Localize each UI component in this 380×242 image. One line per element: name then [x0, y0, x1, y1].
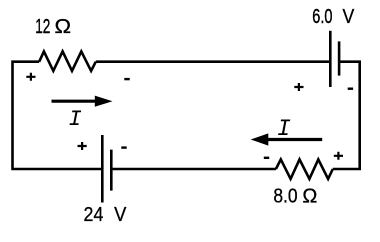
- svg-text:V: V: [114, 205, 126, 227]
- svg-text:Ω: Ω: [302, 185, 317, 207]
- current arrow I (bottom, pointing left): [267, 138, 322, 141]
- svg-text:V: V: [342, 6, 354, 28]
- resistor R1 12 ohm (zigzag, top): [39, 51, 96, 71]
- minus sign (right of B1): [348, 87, 353, 89]
- wire: top-left segment, left side, bottom-left segment (corner path): [13, 62, 102, 169]
- battery B2 24 V: short plate (-): [110, 150, 113, 191]
- current arrow I (top, pointing right): [52, 100, 98, 103]
- wire: top middle segment to battery: [96, 60, 330, 63]
- wire: from battery, right side, bottom-right segment (corner path): [333, 62, 360, 169]
- wire: bottom middle segment: [111, 168, 276, 171]
- svg-text:8.0: 8.0: [273, 184, 297, 206]
- plus sign (left of B2): [78, 142, 87, 150]
- battery B1 6.0 V: long plate (+): [329, 31, 332, 87]
- svg-text:12: 12: [35, 15, 50, 37]
- battery B2 24 V: long plate (+): [101, 135, 104, 203]
- svg-text:I: I: [277, 116, 291, 142]
- plus sign (right of R2): [334, 152, 343, 160]
- plus sign (left of R1): [26, 73, 35, 81]
- svg-text:6.0: 6.0: [312, 5, 332, 28]
- resistor R2 8.0 ohm (zigzag, bottom): [276, 159, 333, 179]
- minus sign (right of B2): [121, 146, 126, 148]
- plus sign (left of B1): [294, 83, 303, 91]
- minus sign (left of R2): [264, 157, 269, 159]
- battery B1 6.0 V: short plate (-): [338, 41, 341, 75]
- svg-text:I: I: [68, 107, 81, 132]
- svg-text:24: 24: [84, 204, 104, 226]
- svg-text:Ω: Ω: [55, 16, 72, 38]
- minus sign (right of R1): [124, 78, 129, 80]
